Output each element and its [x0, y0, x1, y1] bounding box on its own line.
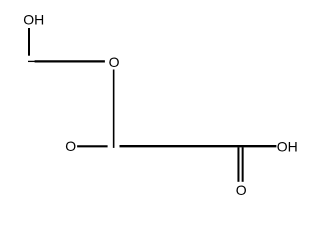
svg-text:OH: OH	[23, 12, 44, 28]
svg-text:O: O	[236, 182, 247, 198]
svg-text:OH: OH	[277, 138, 298, 154]
svg-text:O: O	[65, 138, 76, 154]
svg-text:O: O	[109, 54, 120, 70]
